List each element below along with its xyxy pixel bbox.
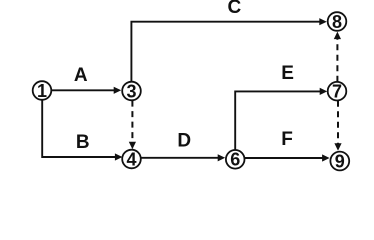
activity B arrow [42,100,122,161]
svg-text:7: 7 [332,82,342,102]
node 4 [122,149,141,169]
svg-text:B: B [76,132,90,153]
dummy dashed arrow 3 to 4 [129,101,136,150]
activity C arrow [131,18,326,82]
dummy dashed arrow 7 to 9 [334,101,341,151]
svg-text:4: 4 [126,149,136,169]
activity A arrow [52,87,122,94]
svg-text:6: 6 [230,150,240,170]
activity E arrow [235,88,327,150]
activity D arrow [141,154,225,161]
svg-text:C: C [228,0,242,18]
svg-text:1: 1 [37,81,47,101]
svg-text:D: D [177,131,191,152]
svg-text:9: 9 [335,151,345,171]
svg-text:8: 8 [332,12,342,32]
dummy dashed arrow 7 to 8 [334,32,341,82]
activity F arrow [245,154,330,161]
node 7 [328,82,347,102]
node 6 [226,150,245,170]
svg-text:F: F [281,129,293,150]
svg-text:E: E [281,63,294,84]
node 1 [33,81,52,101]
node 8 [328,12,347,32]
node 3 [122,81,141,101]
svg-text:3: 3 [126,81,136,101]
node 9 [330,151,349,171]
svg-text:A: A [74,65,88,86]
